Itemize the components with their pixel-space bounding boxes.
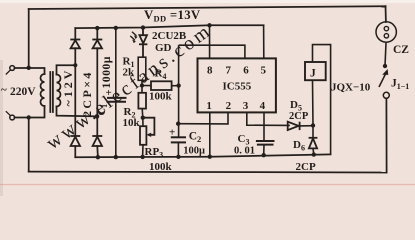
diode D4 (bridge bottom-right): [92, 136, 102, 146]
svg-text:+: +: [169, 127, 175, 139]
svg-text:CZ: CZ: [393, 44, 409, 56]
junction: secondary top / bridge left rail: [73, 63, 77, 67]
junction: pin 8 / VDD rail: [207, 23, 211, 27]
wire: right edge (switch to bottom corner): [385, 98, 387, 172]
svg-text:2CP: 2CP: [289, 111, 309, 122]
diode D5 2CP: [288, 122, 313, 130]
junction: C2 bottom / ground rail: [176, 155, 180, 159]
svg-text:2CU2B: 2CU2B: [152, 30, 187, 42]
junction: R4 / timing node: [176, 83, 180, 87]
resistor R2 10k: [138, 86, 146, 118]
svg-text:JQX−10: JQX−10: [331, 82, 371, 94]
svg-text:4: 4: [260, 100, 266, 112]
svg-text:J: J: [310, 68, 316, 80]
photodiode 2CU2B: [130, 28, 147, 58]
svg-text:8: 8: [207, 65, 213, 77]
junction: bridge right / ground rail: [96, 155, 100, 159]
junction: pin 1 / ground rail: [208, 155, 212, 159]
watermark horizontal rule: [0, 184, 415, 186]
junction: left edge / terminal 2: [27, 115, 31, 119]
wiper: [143, 118, 155, 135]
wire: 220V top rail: [29, 6, 386, 9]
junction: RP3 bottom / ground rail: [140, 155, 144, 159]
wire: pin5 lead: [263, 25, 265, 58]
capacitor C2 100u: [171, 137, 186, 157]
diode D6 2CP: [309, 126, 318, 155]
wire: bridge left rail: [74, 28, 76, 39]
resistor R1 2k: [138, 57, 146, 80]
junction: C3 bottom / ground rail: [262, 153, 266, 157]
svg-text:5: 5: [261, 65, 267, 77]
terminal 2: [6, 111, 11, 116]
junction: left edge / terminal 1: [27, 66, 31, 70]
watermark www diagonal: [43, 20, 217, 154]
wire: VDD rail: [75, 25, 263, 28]
wire: pin3 to D5: [247, 112, 290, 125]
svg-text:100k: 100k: [149, 91, 173, 103]
terminal 1: [6, 70, 11, 75]
relay contact J1-1 switch: [379, 69, 389, 98]
junction: C1 bottom / ground rail: [114, 155, 118, 159]
svg-text:1000μ: 1000μ: [101, 56, 113, 89]
junction: D6 anode / ground rail: [312, 152, 316, 156]
svg-text:100μ: 100μ: [183, 146, 205, 157]
wire: terminal 2 to transformer primary: [14, 106, 44, 118]
svg-text:+: +: [106, 87, 112, 99]
svg-text:~12V: ~12V: [61, 68, 75, 107]
transformer T secondary coil: [57, 75, 61, 107]
wire: secondary bottom to bridge right rail: [57, 107, 98, 117]
transformer core: [49, 72, 51, 112]
node A: R1/R2/R4: [140, 83, 144, 87]
svg-text:6: 6: [243, 65, 249, 77]
svg-text:100k: 100k: [149, 161, 173, 173]
wire: bridge right rail: [96, 28, 98, 39]
capacitor C1 1000u: [107, 28, 127, 157]
wire: relay bottom to D5/D6 node: [312, 80, 315, 125]
capacitor C3 0.01: [256, 141, 275, 145]
svg-text:VDD =13V: VDD =13V: [144, 8, 201, 24]
wire: pin1 lead: [209, 112, 211, 156]
resistor R4 100k (horizontal): [142, 81, 179, 90]
svg-text:7: 7: [226, 65, 232, 77]
svg-text:2CP: 2CP: [296, 161, 316, 173]
svg-text:GD: GD: [155, 42, 172, 54]
wire: bottom rail: [29, 171, 387, 174]
transformer T primary coil: [41, 74, 45, 106]
wire: left edge upper: [28, 9, 30, 68]
junction: R2 / RP3 wiper: [141, 116, 145, 120]
op-amp U1: IC555 box: [198, 58, 276, 112]
diode D1 (bridge top-left): [70, 40, 80, 49]
junction: switch fixed contact: [383, 64, 387, 68]
junction: photodiode / VDD rail: [141, 25, 145, 29]
wire: timing node vertical: [178, 25, 290, 156]
junction: C1 top / VDD rail: [114, 26, 118, 30]
relay coil J: [305, 45, 331, 155]
svg-text:IC555: IC555: [223, 81, 252, 93]
diode D2 (bridge top-right): [92, 40, 102, 49]
wire: pin2 wire: [178, 112, 228, 124]
svg-text:10k: 10k: [123, 117, 141, 129]
wire: inner ground rail: [75, 154, 330, 157]
junction: pin 2 wire / timing node: [176, 122, 180, 126]
svg-text:2CP×4: 2CP×4: [80, 70, 94, 117]
wire: terminal 1 to transformer primary: [14, 68, 44, 74]
wire: relay top hook: [313, 45, 331, 155]
wire: R1 to node A: [141, 80, 143, 85]
svg-text:2: 2: [226, 100, 232, 112]
socket CZ: [376, 22, 396, 66]
svg-text:1: 1: [206, 100, 212, 112]
wire: W1 node to pin6: [179, 45, 245, 58]
svg-text:~: ~: [1, 84, 7, 96]
junction: D5 / D6 / relay: [311, 123, 315, 127]
wire: left edge lower: [28, 118, 30, 172]
light arrows: [132, 32, 137, 36]
svg-text:220V: 220V: [10, 86, 36, 98]
junction: bridge right / VDD rail: [95, 26, 99, 30]
wire: top-right drop to socket CZ: [385, 6, 387, 22]
svg-text:2k: 2k: [123, 67, 136, 79]
wire: secondary top to bridge left rail: [57, 65, 76, 74]
wire: pin4 lead through C3: [263, 112, 265, 140]
potentiometer RP3: [140, 118, 154, 157]
junction: secondary bottom / bridge right rail: [95, 114, 100, 119]
diode D3 (bridge bottom-left): [70, 136, 80, 146]
svg-text:3: 3: [243, 100, 249, 112]
svg-text:0. 01: 0. 01: [234, 146, 255, 157]
wire: pin8 lead: [209, 25, 211, 58]
